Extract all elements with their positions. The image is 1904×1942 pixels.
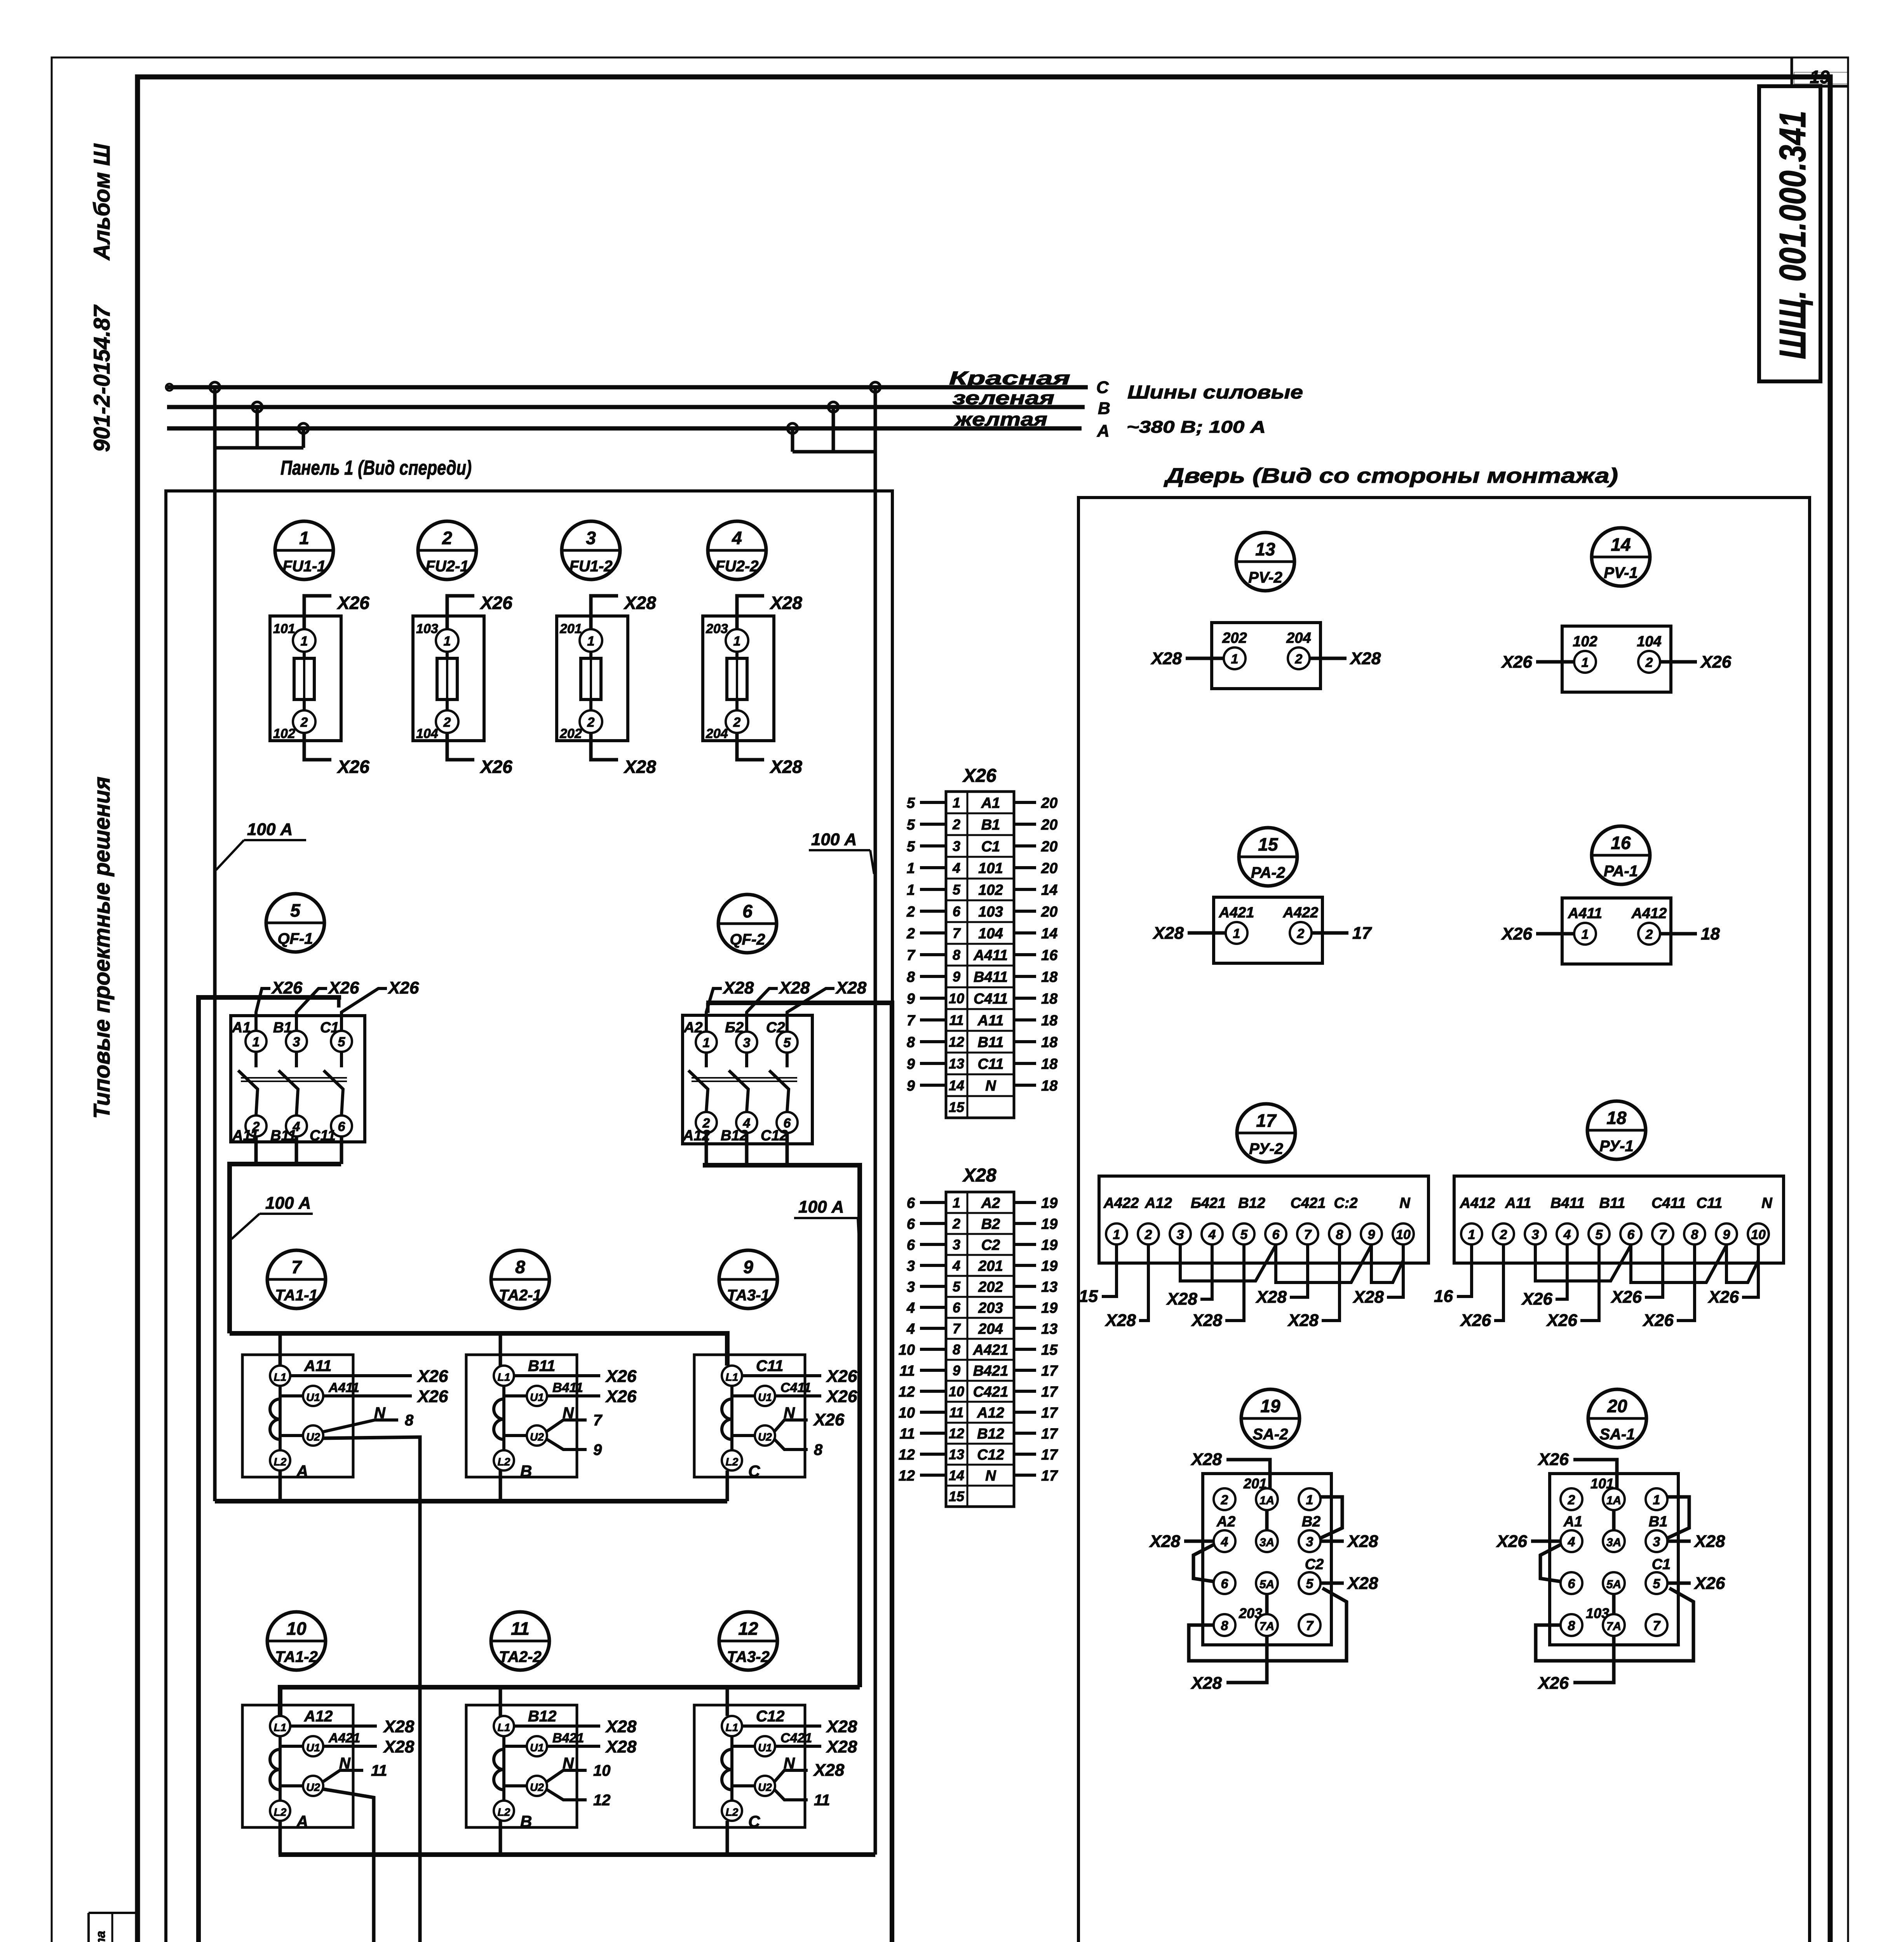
svg-text:1: 1 [1582,655,1589,670]
svg-text:A11: A11 [304,1357,331,1375]
svg-text:зеленая: зеленая [953,388,1054,409]
svg-text:X28: X28 [1191,1311,1223,1330]
svg-text:L1: L1 [726,1371,739,1383]
svg-text:B11: B11 [528,1357,555,1375]
svg-text:X26: X26 [479,593,512,613]
QF-2 pole contact [786,1053,789,1067]
X26 row 8 left lead to 7 [920,953,946,956]
svg-text:B2: B2 [1302,1514,1321,1530]
svg-text:17: 17 [1256,1110,1277,1131]
X28 row 1 left lead to 6 [920,1201,946,1204]
bus phase letters C B A [1096,378,1110,440]
svg-text:7: 7 [291,1257,302,1277]
X28 row 4 left lead to 3 [920,1264,946,1267]
svg-text:Альбом Ш: Альбом Ш [89,143,115,261]
bus colour labels [949,368,1070,430]
svg-text:X28: X28 [1104,1311,1136,1330]
wire: QF-2 input bracket / Ввод 2 riser [706,1003,892,1942]
X28 row 5 left lead to 3 [920,1285,946,1288]
svg-text:2: 2 [1568,1493,1575,1507]
svg-text:X26: X26 [1707,1288,1739,1307]
X28 row 8 right lead to 15 [1014,1348,1036,1351]
svg-text:8: 8 [953,1342,960,1357]
svg-text:13: 13 [1041,1321,1057,1337]
fuse FU1-1 terminal 2 [293,710,315,733]
svg-text:U1: U1 [530,1742,544,1754]
svg-text:N: N [1761,1195,1773,1211]
X28 row 13 left lead to 12 [920,1453,946,1456]
svg-text:4: 4 [1568,1535,1575,1549]
svg-text:X26: X26 [813,1410,845,1429]
SA-2 jumper 8 wrap to 5 [1189,1588,1347,1661]
svg-text:20: 20 [1607,1396,1627,1416]
svg-text:102: 102 [978,882,1003,898]
РУ-1 wire t4 to X26 [1556,1244,1567,1299]
ТА2-2 terminal U1 [527,1736,547,1756]
РУ-1 terminal 8 [1684,1223,1705,1244]
svg-text:~380 В; 100 А: ~380 В; 100 А [1127,418,1266,437]
svg-text:7: 7 [1306,1618,1314,1633]
svg-text:X28: X28 [605,1737,637,1756]
ТА1-1 terminal U2 [303,1425,323,1446]
svg-text:A421: A421 [1219,905,1254,921]
svg-text:X28: X28 [623,593,656,613]
svg-text:L1: L1 [498,1721,510,1733]
svg-text:5: 5 [953,882,961,898]
svg-text:103: 103 [416,621,438,636]
PA-1 terminal 2 [1638,923,1660,945]
svg-text:2: 2 [1295,652,1303,666]
X26 row 6 left lead to 2 [920,910,946,913]
svg-text:5: 5 [290,900,301,921]
РУ-2 jumper t6-t9 [1276,1244,1371,1282]
SA-2 left lead X28 [1184,1540,1214,1543]
svg-text:C2: C2 [766,1020,785,1036]
svg-text:В11: В11 [270,1128,296,1144]
svg-text:1: 1 [953,1195,960,1211]
РУ-1 wire t2 to X26 [1494,1244,1503,1321]
svg-text:FU2-2: FU2-2 [715,558,758,575]
QF-2 terminal 6 [777,1112,798,1133]
svg-text:14: 14 [949,1077,964,1093]
svg-text:20: 20 [1041,795,1057,811]
current transformer ТА3-2 [694,1612,857,1831]
svg-text:B1: B1 [981,817,1000,833]
svg-text:204: 204 [1286,630,1311,646]
svg-text:201: 201 [559,621,582,636]
svg-text:19: 19 [1810,67,1830,87]
ТА2-2 wire B421 to X28 [547,1745,600,1748]
svg-text:А11: А11 [1505,1195,1531,1211]
svg-text:3: 3 [586,528,596,548]
РУ-1 terminal 2 [1493,1223,1514,1244]
svg-text:5: 5 [907,839,915,855]
X26 row 13 left lead to 9 [920,1062,946,1065]
QF-1 wire to X26 (pole 2) [296,988,327,1031]
SA-1 top lead X26 [1573,1460,1617,1488]
svg-text:9: 9 [907,1078,915,1094]
svg-text:2: 2 [1500,1227,1507,1242]
svg-text:11: 11 [814,1792,830,1809]
svg-text:A412: A412 [1631,905,1667,922]
svg-text:16: 16 [1041,947,1058,964]
svg-text:5: 5 [907,795,915,811]
X28 row 10 left lead to 12 [920,1390,946,1393]
svg-text:X28: X28 [769,593,802,613]
svg-text:В12: В12 [721,1128,748,1144]
svg-text:L2: L2 [498,1806,510,1818]
svg-text:B: B [1098,399,1110,418]
QF-1 terminal 3 [286,1031,307,1052]
svg-text:5A: 5A [1259,1578,1274,1591]
SA-2 terminal 7A [1256,1614,1278,1636]
svg-text:X26: X26 [605,1367,637,1386]
svg-text:X26: X26 [1501,653,1533,672]
svg-text:10: 10 [949,1383,964,1399]
svg-text:L1: L1 [726,1721,739,1733]
svg-text:X26: X26 [962,766,996,786]
svg-text:6: 6 [1221,1577,1229,1591]
svg-text:20: 20 [1041,839,1057,855]
svg-text:B12: B12 [528,1708,556,1725]
node: bus A tap right [787,423,798,433]
svg-text:С11: С11 [978,1056,1004,1072]
svg-text:L2: L2 [274,1806,287,1818]
fuse FU2-1 [413,521,512,777]
left margin vertical caption: Типовые проектные решения 901-2-0154.87 Альбом III [89,143,115,1119]
wire: TA1-2 U2 down to N bus [322,1789,374,1942]
svg-text:5: 5 [1240,1227,1248,1242]
ТА1-2 terminal L2 [270,1801,290,1821]
X28 row 2 right lead to 19 [1014,1222,1036,1225]
svg-text:X26: X26 [1521,1289,1553,1309]
svg-text:6: 6 [338,1119,346,1134]
svg-text:U2: U2 [306,1781,320,1793]
РУ-1 terminal 3 [1525,1223,1546,1244]
Дверь enclosure box [1078,498,1810,1942]
X26 row 13 right lead to 18 [1014,1062,1036,1065]
svg-text:12: 12 [899,1468,915,1484]
svg-text:8: 8 [953,947,960,963]
wire: TA group 1 lower bracket [215,1499,727,1503]
svg-text:7: 7 [1304,1227,1312,1242]
fuse FU1-1 wire to X26 (bottom) [304,733,331,760]
svg-text:В12: В12 [977,1426,1004,1442]
svg-text:19: 19 [1041,1216,1057,1232]
SA-2 terminal 2 [1214,1488,1235,1510]
ТА3-2 terminal L1 [722,1716,742,1736]
SA-1 jumper 1-3 [1667,1497,1689,1538]
SA-1 terminal 1A [1603,1488,1625,1510]
svg-text:9: 9 [953,969,960,985]
fuse FU1-1 element [303,652,306,658]
meter PA-2 [1152,828,1373,963]
РУ-2 terminal 7 [1297,1223,1318,1244]
svg-text:3: 3 [953,838,960,854]
wire: bus A drop left [302,428,305,448]
svg-text:X28: X28 [1347,1574,1378,1593]
svg-text:203: 203 [1239,1605,1262,1621]
cam switch SA-1 [1496,1389,1725,1693]
X26 row 3 left lead to 5 [920,844,946,847]
svg-text:10: 10 [593,1762,611,1779]
terminal strip X28 [899,1165,1058,1507]
svg-text:X28: X28 [1352,1288,1384,1307]
РУ-2 terminal 4 [1202,1223,1223,1244]
svg-text:8: 8 [515,1257,525,1277]
svg-text:C2: C2 [981,1237,1000,1253]
svg-text:14: 14 [1041,926,1057,942]
X26 row 8 right lead to 16 [1014,953,1036,956]
svg-text:203: 203 [706,621,728,636]
svg-text:19: 19 [1041,1258,1057,1274]
svg-text:2: 2 [587,715,595,730]
svg-text:201: 201 [978,1258,1003,1274]
wire: bus C tap down to TA2 lower bracket (x=2253) [874,387,877,1855]
ТА3-1 wire N to X26 [774,1420,808,1432]
svg-text:4: 4 [732,528,742,548]
X28 row 1 right lead to 19 [1014,1201,1036,1204]
svg-text:желтая: желтая [953,409,1047,430]
svg-text:L2: L2 [726,1456,739,1468]
svg-text:18: 18 [1041,969,1058,985]
QF-2 wire to X28 (pole 3) [787,988,834,1032]
wire: QF-1 output bracket down to TA1 upper bracket [256,1136,341,1164]
svg-text:Дверь (Вид со стороны монтажа): Дверь (Вид со стороны монтажа) [1164,464,1618,487]
PA-1 lead right 18 [1660,932,1697,936]
svg-text:1: 1 [1468,1227,1475,1242]
PV-1 lead right X26 [1660,660,1697,664]
svg-text:2: 2 [300,715,308,730]
svg-text:A412: A412 [1460,1195,1495,1211]
X26 row 12 left lead to 8 [920,1040,946,1043]
svg-text:A12: A12 [1144,1195,1172,1211]
svg-text:U2: U2 [530,1431,544,1443]
SA-1 terminal 7 [1646,1614,1667,1636]
svg-text:A411: A411 [973,947,1008,964]
svg-text:100 А: 100 А [798,1197,844,1216]
fuse FU2-1 terminal 1 [436,629,458,652]
X26 row 4 right lead to 20 [1014,866,1036,869]
svg-text:4: 4 [906,1321,915,1337]
svg-text:3: 3 [1177,1227,1184,1242]
svg-text:1: 1 [907,860,915,877]
svg-text:12: 12 [899,1384,915,1400]
svg-text:18: 18 [1041,1013,1058,1029]
svg-text:7: 7 [907,947,916,964]
ТА1-1 wire A411 to X26 [323,1394,412,1397]
svg-text:X26: X26 [1537,1674,1569,1693]
svg-text:C421: C421 [973,1384,1009,1400]
svg-text:6: 6 [907,1195,915,1211]
svg-text:SA-2: SA-2 [1252,1426,1288,1443]
РУ-1 terminal 7 [1652,1223,1673,1244]
svg-text:1: 1 [444,634,451,649]
svg-text:A: A [296,1812,308,1831]
svg-text:4: 4 [952,860,960,876]
svg-text:С:2: С:2 [1334,1195,1357,1211]
svg-text:С421: С421 [1291,1195,1326,1211]
svg-text:ТА1-2: ТА1-2 [275,1648,318,1665]
PV-2 terminal 2 [1288,647,1310,669]
wire: bus A drop right [791,428,794,452]
wire: bus C tap down to TA1 lower bracket (x=553) [213,387,217,1501]
svg-text:1A: 1A [1259,1494,1274,1507]
svg-text:18: 18 [1041,1078,1058,1094]
bus B (зеленая) [167,405,1085,409]
ТА3-1 terminal U1 [755,1386,775,1406]
svg-text:12: 12 [593,1792,611,1809]
SA-2 terminal 7 [1299,1614,1320,1636]
svg-text:4: 4 [952,1258,960,1274]
svg-text:1: 1 [1231,652,1239,666]
svg-text:ТА3-2: ТА3-2 [727,1648,770,1665]
QF-2 terminal 4 [736,1112,757,1133]
Панель 1 enclosure box [166,491,892,1942]
svg-text:2: 2 [1144,1227,1152,1242]
svg-text:4: 4 [1208,1227,1216,1242]
svg-text:4: 4 [906,1300,915,1316]
ТА3-1 terminal L1 [722,1366,742,1386]
svg-text:X28: X28 [835,978,867,997]
svg-text:7: 7 [953,1321,961,1336]
node: bus C tap left [210,382,220,392]
wire: harness jog right [793,450,875,454]
X26 row 1 right lead to 20 [1014,801,1036,804]
svg-text:C11: C11 [756,1357,783,1375]
X28 row 14 right lead to 17 [1014,1474,1036,1477]
fuse FU1-2 wire to X28 (top) [591,596,618,630]
svg-text:19: 19 [1041,1195,1057,1211]
SA-2 terminal 1A [1256,1488,1278,1510]
QF-1 terminal 4 [286,1115,307,1136]
svg-text:N: N [784,1404,795,1422]
svg-text:5: 5 [338,1035,346,1049]
svg-text:1: 1 [1306,1493,1313,1507]
svg-text:U1: U1 [758,1391,772,1403]
X28 row 11 right lead to 17 [1014,1411,1036,1414]
svg-text:PV-2: PV-2 [1248,569,1282,586]
svg-text:SA-1: SA-1 [1599,1426,1635,1443]
fuse FU2-1 wire to X26 (bottom) [447,733,474,760]
svg-text:3: 3 [907,1279,915,1295]
fuse FU2-1 terminal 2 [436,710,458,733]
svg-text:С411: С411 [1651,1195,1686,1211]
svg-text:7: 7 [1653,1618,1661,1633]
РУ-1 jumper t9-t10 [1726,1244,1758,1282]
svg-text:X26: X26 [327,978,359,997]
svg-text:A411: A411 [1568,905,1602,922]
svg-text:3: 3 [953,1237,960,1253]
ТА3-1 wire C411 to X26 [775,1394,821,1397]
svg-text:17: 17 [1041,1447,1058,1463]
svg-text:2: 2 [1221,1493,1228,1507]
X28 row 9 left lead to 11 [920,1369,946,1372]
svg-text:X28: X28 [1149,1532,1181,1551]
svg-text:L2: L2 [274,1456,287,1468]
svg-text:1: 1 [1113,1227,1120,1242]
QF-1 terminal 1 [246,1031,267,1052]
QF-2 terminal 5 [777,1032,798,1053]
svg-text:6: 6 [907,1237,915,1253]
svg-text:С11: С11 [310,1128,336,1144]
svg-text:A422: A422 [1283,905,1319,921]
svg-text:9: 9 [907,1056,915,1072]
svg-text:X26: X26 [1610,1288,1642,1307]
svg-text:X26: X26 [1460,1311,1491,1330]
svg-text:19: 19 [1041,1237,1057,1253]
svg-text:A422: A422 [1103,1195,1139,1211]
SA-2 jumper 1-3 [1320,1497,1342,1538]
svg-text:2: 2 [443,715,451,730]
SA-2 lead 3 to X28 [1320,1540,1344,1543]
ТА3-2 terminal U2 [755,1776,775,1796]
svg-text:N: N [339,1755,351,1772]
svg-text:6: 6 [1568,1577,1576,1591]
svg-text:U2: U2 [530,1781,544,1793]
X28 row 10 right lead to 17 [1014,1390,1036,1393]
svg-text:C: C [1096,378,1109,397]
PA-2 terminal 1 [1226,922,1247,944]
svg-text:1A: 1A [1606,1494,1621,1507]
svg-text:X26: X26 [387,978,419,997]
svg-text:A12: A12 [304,1708,333,1725]
bus C (Красная) [167,385,1088,390]
QF-1 terminal 2 [246,1115,267,1136]
SA-1 jumper 8 wrap to 5 [1536,1588,1693,1661]
svg-text:14: 14 [1611,534,1631,555]
svg-text:104: 104 [416,726,438,741]
svg-text:202: 202 [559,726,582,741]
РУ-2 jumper t9-t10 [1371,1244,1403,1282]
svg-text:C: C [748,1812,760,1831]
svg-text:X28: X28 [1693,1532,1725,1551]
ТА3-2 terminal L2 [722,1801,742,1821]
svg-text:3: 3 [743,1035,751,1050]
svg-text:X28: X28 [769,757,802,777]
X26 row 1 left lead to 5 [920,801,946,804]
cam switch SA-2 [1149,1389,1378,1693]
svg-text:A: A [1097,421,1110,440]
wire: harness jog left [215,446,303,450]
SA-1 lead 5 to X26 [1667,1582,1691,1585]
node: bus B tap right [828,402,838,412]
svg-text:X26: X26 [826,1387,857,1406]
svg-text:7: 7 [1659,1227,1667,1242]
РУ-2 terminal 2 [1138,1223,1159,1244]
wire: Ввод 1 riser / QF-1 input bracket [199,997,341,1942]
wire: bus B drop left [256,407,259,448]
svg-text:14: 14 [949,1467,964,1483]
svg-text:5: 5 [1306,1577,1314,1591]
svg-text:А11: А11 [977,1013,1004,1029]
svg-text:С11: С11 [1697,1195,1723,1211]
svg-text:A2: A2 [981,1195,1000,1211]
svg-text:A2: A2 [1216,1514,1236,1530]
РУ-2 wire t8 to X28 [1322,1244,1340,1321]
fuse FU2-2 wire to X28 (bottom) [737,733,764,760]
РУ-2 terminal 3 [1170,1223,1191,1244]
SA-2 terminal 3A [1256,1530,1278,1552]
svg-text:20: 20 [1041,817,1057,833]
SA-1 terminal 7A [1603,1614,1625,1636]
svg-text:18: 18 [1041,991,1058,1007]
svg-text:8: 8 [907,1034,915,1051]
ТА2-2 terminal L1 [494,1716,514,1736]
РУ-1 jumper t3-t6 [1535,1244,1631,1281]
svg-text:8: 8 [1221,1618,1228,1633]
fuse FU1-2 [557,521,656,777]
